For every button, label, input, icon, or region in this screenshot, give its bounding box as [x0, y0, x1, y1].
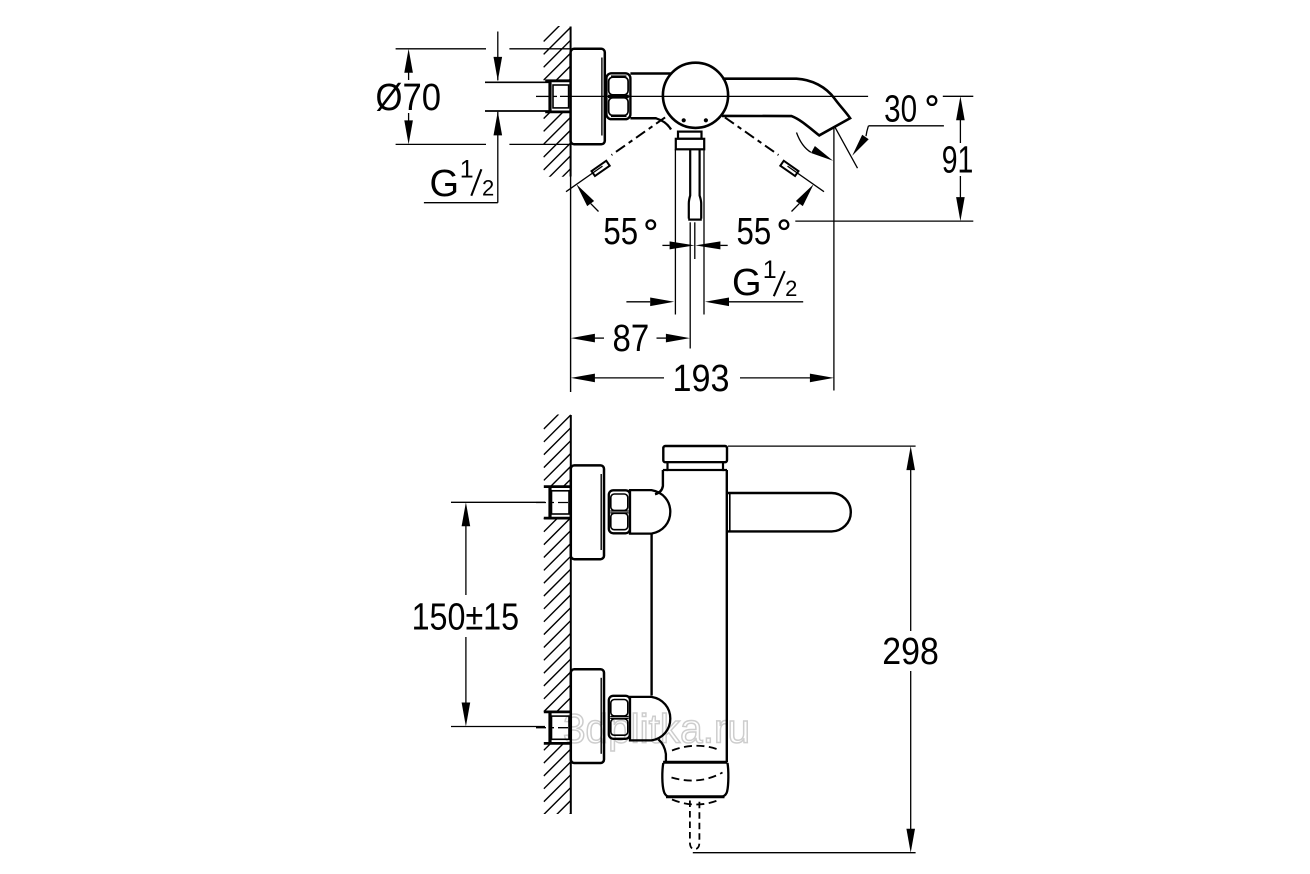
leader line G1/2 top label [424, 202, 498, 204]
svg-text:2: 2 [785, 276, 797, 301]
main body (side view) [663, 469, 668, 471]
55-degree extension line left [566, 166, 603, 192]
svg-text:G: G [430, 163, 460, 205]
dimension G1/2 lower arrows [626, 301, 650, 303]
svg-text:G: G [732, 262, 762, 304]
lower union nut (side view) [609, 696, 630, 739]
dimension 298: line and arrows [910, 468, 912, 631]
lower pipe centreline (side view) [536, 727, 572, 729]
cartridge cap (side view) [663, 446, 727, 462]
svg-text:91: 91 [942, 139, 974, 181]
hidden hose nipple (dashed) [690, 801, 700, 850]
swung handle end box left [592, 161, 610, 176]
dimension 193 [594, 377, 664, 379]
handle swing phantom line left [612, 117, 666, 155]
upper escutcheon (side view) [571, 465, 604, 559]
svg-text:1: 1 [763, 256, 777, 284]
handle lever (side view) [727, 493, 851, 531]
svg-text:1: 1 [460, 156, 474, 184]
87 extension line [689, 222, 691, 348]
svg-text:87: 87 [613, 318, 650, 360]
upper pipe centreline (side view) [536, 502, 572, 504]
wall hatching (top view) [544, 15, 571, 222]
svg-text:193: 193 [673, 358, 730, 400]
55-degree leader arrow right [796, 184, 814, 206]
upper union nut (side view) [609, 490, 630, 533]
sphere dot right [704, 118, 708, 122]
lever tip width arrows (bowtie) [662, 244, 669, 246]
svg-text:55: 55 [603, 211, 638, 253]
dimension 91: extension line bottom [795, 220, 973, 222]
handle collar (top view) [678, 132, 702, 139]
dimension 150+-15: line and arrows [465, 525, 467, 596]
dimension G1/2 vertical (pipe thread) [497, 32, 499, 81]
escutcheon (top view) [571, 49, 605, 145]
svg-text:3dplitka.ru: 3dplitka.ru [563, 706, 750, 752]
dimension D70: dimension line and arrows [408, 71, 410, 80]
lower in-wall union block (side view) [544, 711, 571, 714]
hidden dome arc below cup (dashed) [672, 800, 718, 805]
svg-text:30: 30 [884, 89, 917, 131]
dimension D70: extension lines [396, 48, 486, 50]
30-degree arc arrow left [797, 133, 811, 153]
union nut (top view) [606, 73, 630, 119]
dimension 150+-15: extension lines [451, 501, 545, 503]
lever axis reference line [694, 222, 696, 259]
55-degree extension line right [788, 166, 825, 192]
valve sphere (top view) [663, 63, 728, 128]
wall line (top view) [570, 27, 572, 177]
lever width extension lines (G1/2 lower) [674, 149, 676, 314]
upper inlet fitting and ball joint (side view) [630, 490, 670, 533]
outlet neck (side view) [659, 740, 666, 762]
supply pipe (top view) [485, 81, 549, 83]
wall line (side view) [570, 415, 572, 814]
dimension 91: dimension line and arrows [959, 118, 961, 143]
svg-text:2: 2 [482, 175, 494, 200]
hidden dome arc in cup (dashed) [672, 773, 723, 781]
faucet body tube (top view) [630, 72, 671, 75]
handle lever (top view) [689, 149, 690, 218]
pipe centreline (top view) [536, 95, 549, 97]
30-degree slant reference line [835, 127, 857, 168]
outlet cup (side view) [663, 761, 727, 764]
handle swing phantom line right [725, 117, 779, 155]
dimension 298: extension lines [728, 445, 916, 447]
svg-text:150±15: 150±15 [412, 596, 519, 638]
upper in-wall union block (side view) [544, 485, 571, 488]
svg-text:298: 298 [882, 631, 939, 673]
sphere dot left [682, 118, 686, 122]
lower inlet fitting and ball joint (side view) [630, 697, 670, 741]
svg-text:Ø70: Ø70 [376, 77, 442, 119]
lower escutcheon (side view) [571, 669, 604, 763]
dimension 87 [594, 337, 604, 339]
hidden dome arc upper (dashed) [672, 746, 718, 751]
in-wall pipe union block (top view) [545, 79, 570, 82]
swung handle end box right [780, 161, 798, 176]
spout tip vertical reference line [833, 127, 835, 390]
spout (top view) [722, 79, 850, 136]
wall hatching (side view) [544, 402, 571, 866]
svg-text:55: 55 [737, 211, 772, 253]
55-degree leader arrow left [576, 184, 594, 206]
30-degree leader with arrow [869, 125, 944, 127]
